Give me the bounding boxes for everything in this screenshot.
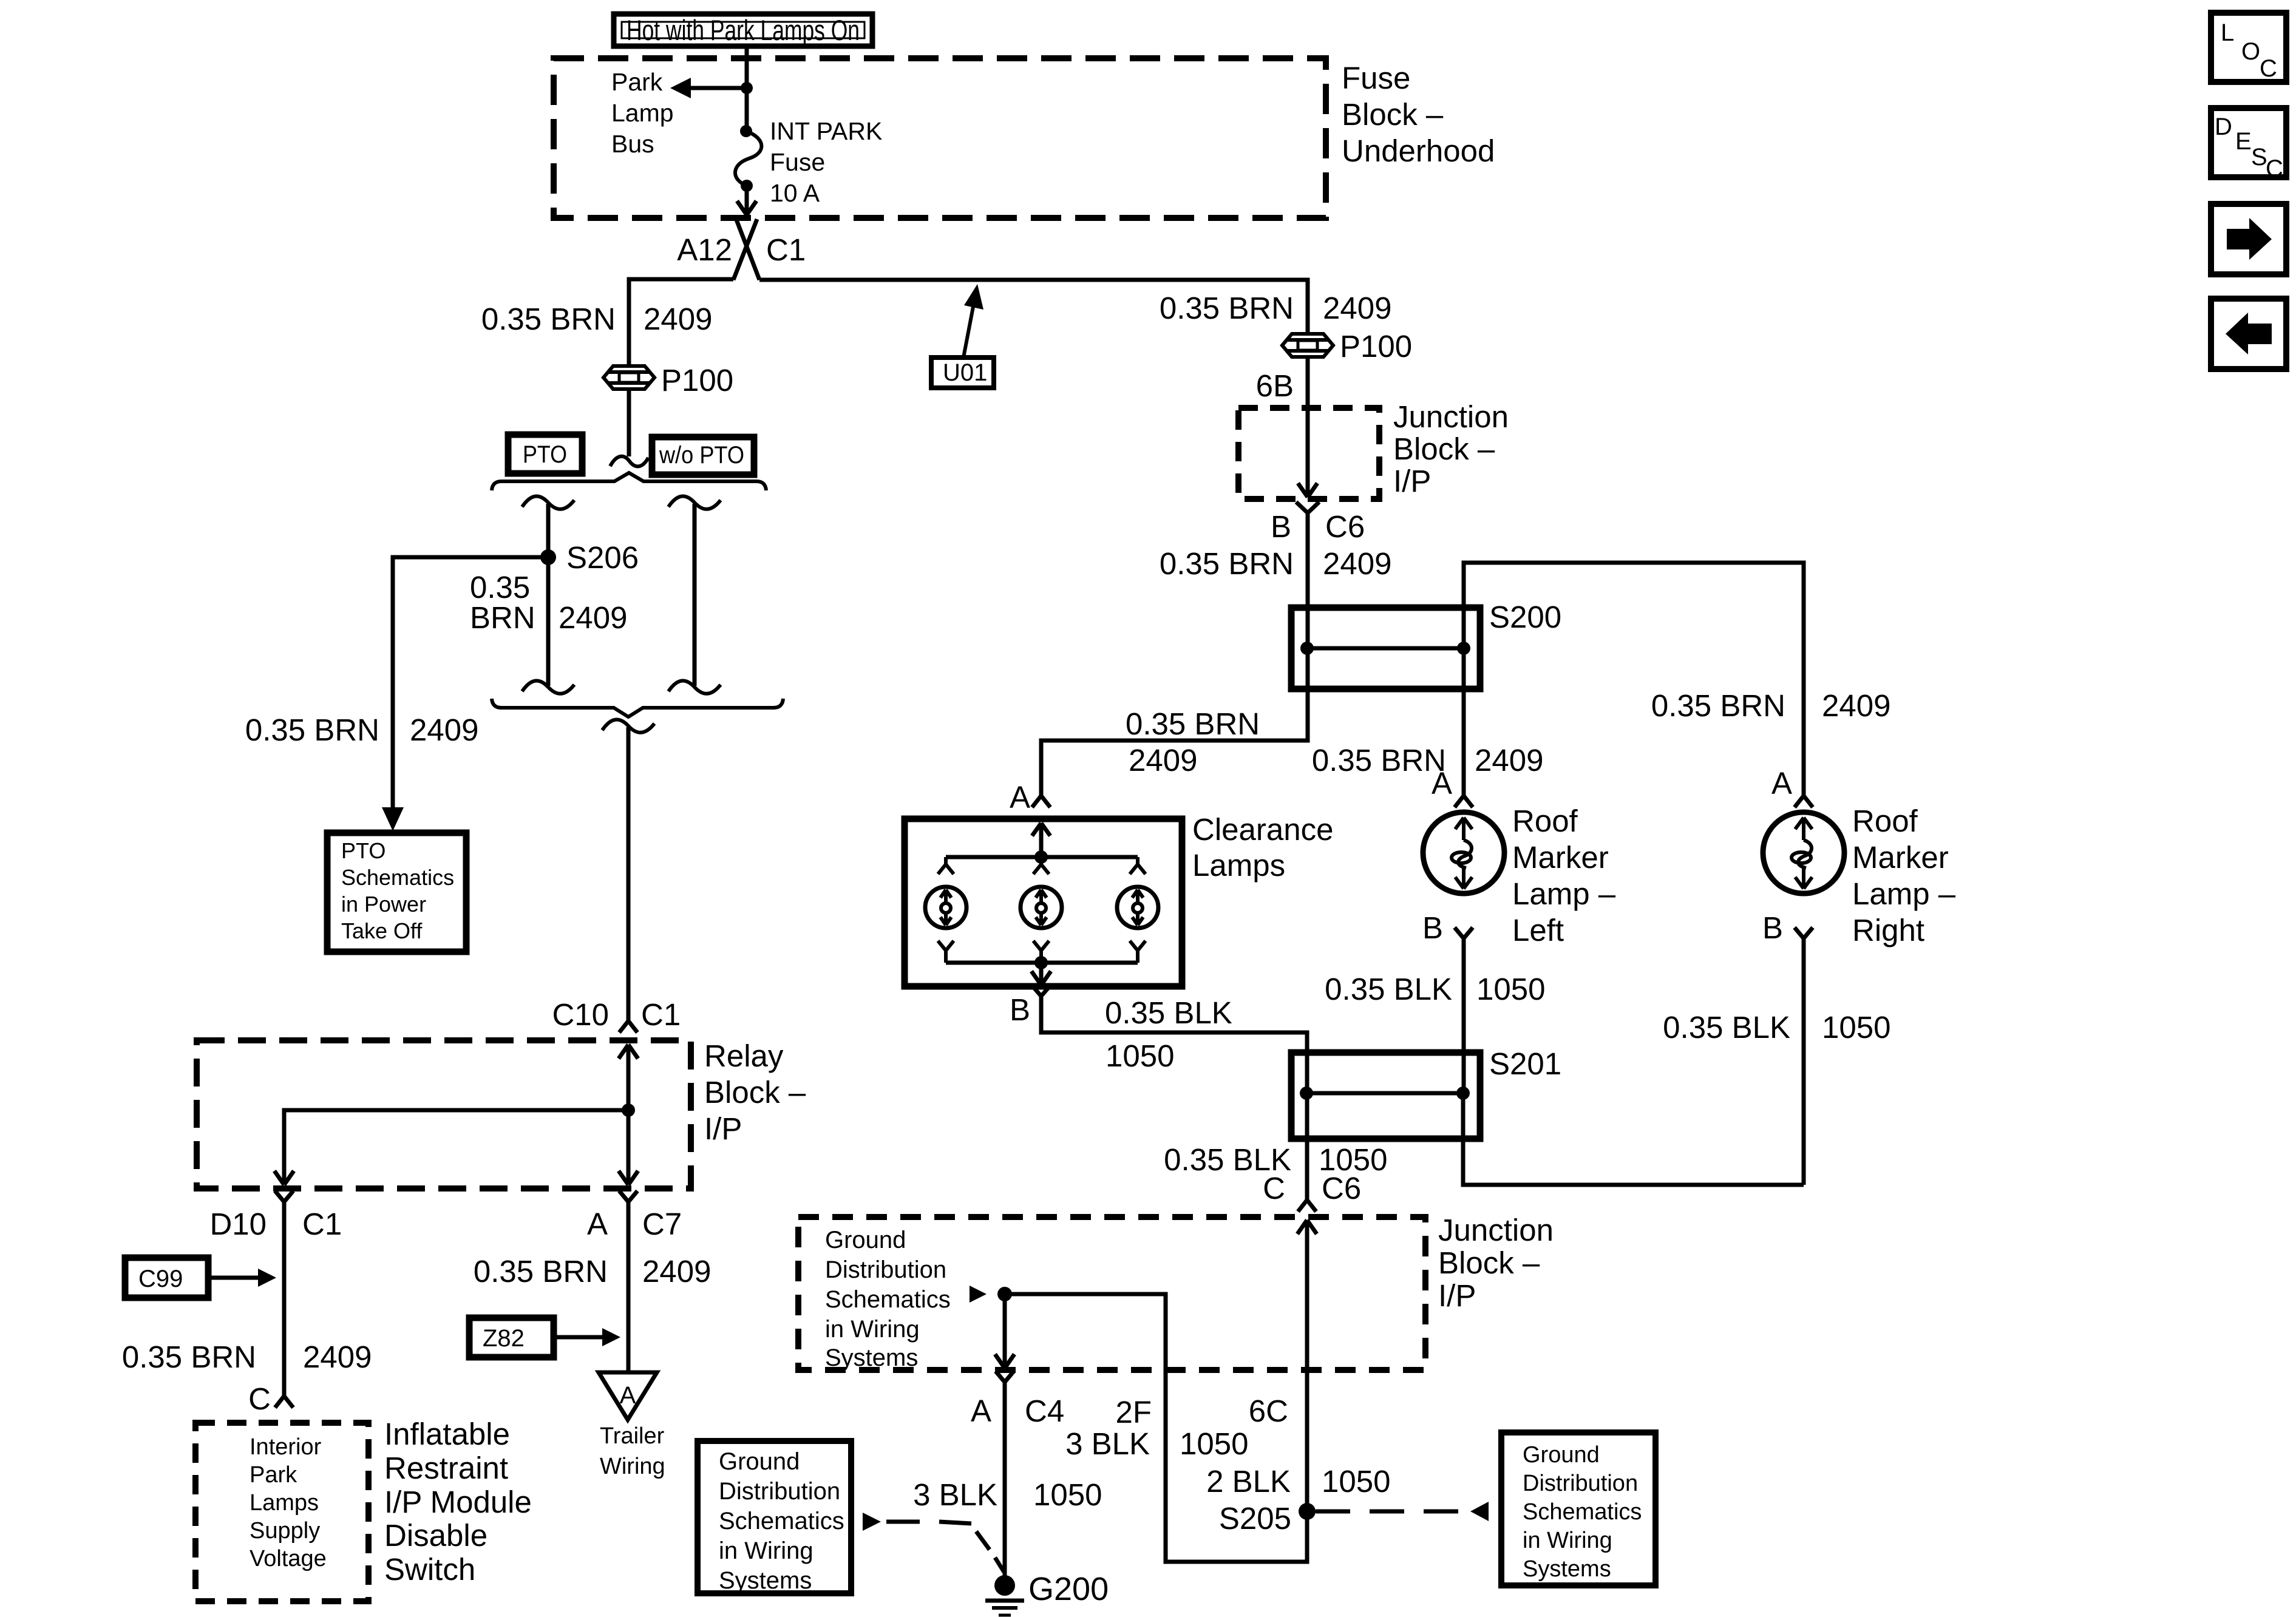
svg-text:A: A [620, 1382, 636, 1409]
svg-text:S206: S206 [566, 540, 639, 575]
svg-text:Trailer: Trailer [600, 1423, 665, 1449]
svg-text:0.35 BRN: 0.35 BRN [481, 302, 616, 336]
node clearance feed dot [1034, 850, 1048, 864]
wire S206 to PTO schematics arrow [393, 557, 548, 807]
svg-text:Schematics: Schematics [719, 1508, 844, 1534]
alternative bracket left (PTO path) [522, 497, 574, 694]
label Trailer Wiring [600, 1423, 665, 1479]
svg-text:0.35 BRN: 0.35 BRN [1126, 707, 1260, 741]
svg-text:2 BLK: 2 BLK [1206, 1464, 1291, 1499]
svg-text:C10: C10 [552, 997, 609, 1032]
wire from Hot box into fuse block [745, 46, 749, 88]
svg-text:A: A [587, 1207, 608, 1241]
clearance bulb left [925, 857, 966, 963]
svg-text:B: B [1422, 910, 1443, 945]
connector A C4 legs [996, 1371, 1014, 1390]
svg-text:D: D [2215, 114, 2232, 140]
label Fuse Block - Underhood [1342, 61, 1495, 168]
clearance bulb right [1117, 857, 1158, 963]
svg-text:2409: 2409 [1323, 546, 1391, 581]
svg-text:Switch: Switch [384, 1552, 475, 1587]
svg-text:B: B [1010, 992, 1030, 1027]
svg-text:Supply: Supply [250, 1518, 320, 1544]
wire B C6 to S200 [1306, 522, 1310, 648]
svg-text:Fuse: Fuse [1342, 61, 1410, 95]
svg-text:2409: 2409 [642, 1254, 711, 1289]
svg-text:C: C [2260, 55, 2277, 82]
svg-text:3 BLK: 3 BLK [1065, 1426, 1150, 1461]
svg-text:Park: Park [250, 1462, 297, 1488]
svg-text:B: B [1762, 910, 1783, 945]
wire A12 left leg to left branch corner [629, 279, 733, 366]
label Park Lamp Bus [611, 68, 674, 158]
svg-text:Distribution: Distribution [1523, 1471, 1638, 1496]
label Roof Marker Lamp - Right [1852, 804, 1956, 947]
svg-text:Block –: Block – [1393, 432, 1495, 466]
junction block I/P dashed box (upper) [1238, 408, 1379, 499]
svg-text:C: C [248, 1381, 271, 1416]
sidebar icon arrow left [2211, 299, 2286, 369]
splice box S201 [1291, 1053, 1480, 1139]
dashed reference wire to G200 [886, 1520, 920, 1524]
label 0.35 BRN (stacked at S206) [470, 570, 535, 635]
connector B C6 legs [1296, 502, 1319, 522]
svg-text:Wiring: Wiring [600, 1454, 665, 1479]
dashed reference wire S205 to ground distribution schematics [1316, 1510, 1469, 1514]
svg-text:A: A [1771, 766, 1792, 801]
svg-text:0.35 BRN: 0.35 BRN [474, 1254, 608, 1289]
svg-text:Junction: Junction [1438, 1213, 1554, 1247]
arrow C99 to wire [208, 1269, 276, 1287]
svg-text:Marker: Marker [1512, 840, 1609, 875]
label INT PARK Fuse 10 A [770, 117, 882, 207]
interior park lamps dashed box [195, 1423, 369, 1601]
sidebar icon arrow right [2211, 204, 2286, 274]
wire clearance top bus [946, 855, 1138, 859]
svg-text:I/P: I/P [1393, 464, 1431, 498]
wire dot to 2F drop [1005, 1294, 1307, 1562]
svg-text:Hot with Park Lamps On: Hot with Park Lamps On [627, 14, 860, 46]
connector P100 (right) [1282, 334, 1333, 357]
trailer wiring triangle A [599, 1372, 657, 1420]
splice S206 [540, 549, 556, 565]
svg-text:6C: 6C [1249, 1394, 1288, 1428]
svg-text:Park: Park [611, 68, 663, 96]
svg-text:I/P: I/P [704, 1111, 742, 1146]
wire S200 right inner down to left roof lamp [1462, 648, 1466, 796]
arrow down to D10 [274, 1171, 294, 1185]
svg-text:INT PARK: INT PARK [770, 117, 882, 145]
svg-text:2409: 2409 [644, 302, 712, 336]
wire brace to relay block connector C10 [627, 727, 631, 1021]
roof marker lamp right [1763, 796, 1844, 1185]
svg-text:C1: C1 [641, 997, 681, 1032]
svg-text:0.35: 0.35 [470, 570, 530, 605]
reference box PTO Schematics in Power Take Off [327, 833, 466, 952]
wire dot to fuse [745, 88, 749, 131]
svg-text:Ground: Ground [719, 1448, 800, 1475]
label Clearance Lamps [1192, 812, 1333, 883]
svg-text:0.35 BLK: 0.35 BLK [1105, 995, 1232, 1030]
svg-text:Bus: Bus [611, 130, 654, 158]
svg-text:P100: P100 [661, 363, 733, 398]
label Relay Block - I/P [704, 1039, 806, 1146]
svg-text:w/o PTO: w/o PTO [659, 442, 744, 469]
wire left lamp B into S201 [1462, 1051, 1466, 1093]
wire through junction block with arrow down [1298, 408, 1317, 497]
reference box Ground Distribution Schematics in Wiring Systems (right) [1501, 1432, 1656, 1585]
svg-text:Systems: Systems [1523, 1556, 1611, 1582]
connector A C7 legs [619, 1191, 637, 1210]
wire D10 down to interior park lamps [282, 1210, 287, 1396]
fuse INT PARK Fuse 10 A [735, 125, 761, 192]
ground G200 [985, 1575, 1024, 1615]
svg-text:Voltage: Voltage [250, 1546, 327, 1571]
wire S200 right branch up and over to right roof lamp [1464, 563, 1804, 796]
svg-text:0.35 BRN: 0.35 BRN [1160, 546, 1294, 581]
svg-text:Restraint: Restraint [384, 1451, 508, 1485]
label Ground Distribution Schematics in Wiring Systems (inside junction block) [825, 1227, 951, 1371]
svg-text:Systems: Systems [719, 1567, 812, 1594]
svg-text:Clearance: Clearance [1192, 812, 1333, 847]
node junction dot in fuse block [741, 82, 753, 94]
svg-text:0.35 BRN: 0.35 BRN [122, 1340, 256, 1374]
svg-text:Take Off: Take Off [341, 918, 423, 943]
svg-text:in Wiring: in Wiring [825, 1316, 920, 1343]
svg-text:C7: C7 [642, 1207, 682, 1241]
svg-text:Lamp: Lamp [611, 99, 674, 127]
arrow U01 to wire [963, 284, 983, 358]
svg-text:BRN: BRN [470, 600, 535, 635]
reference box Ground Distribution Schematics in Wiring Systems (left) [698, 1441, 851, 1594]
connector B legs (clearance) [1033, 986, 1050, 1005]
wire break symbol (tilde) [610, 456, 648, 467]
svg-text:1050: 1050 [1322, 1464, 1390, 1499]
svg-text:S205: S205 [1219, 1501, 1291, 1536]
arrow down out of clearance box [1031, 963, 1051, 985]
svg-text:Disable: Disable [384, 1518, 487, 1553]
svg-text:Lamps: Lamps [250, 1490, 319, 1516]
wire start tilde below brace [602, 720, 654, 733]
svg-text:Ground: Ground [825, 1227, 906, 1253]
svg-text:G200: G200 [1028, 1571, 1109, 1607]
connector A12 C1 crossed pair [733, 219, 759, 280]
svg-text:1050: 1050 [1106, 1039, 1174, 1073]
svg-text:Systems: Systems [825, 1344, 918, 1371]
connector A legs (clearance) [1032, 796, 1050, 807]
svg-text:A: A [1432, 766, 1452, 801]
wire P100 to break [627, 389, 631, 456]
sidebar icon DESC [2211, 108, 2286, 182]
svg-text:0.35 BLK: 0.35 BLK [1663, 1010, 1790, 1045]
alternative bracket right (w/o PTO path) [668, 497, 721, 694]
wire A12 right leg to right branch corner [759, 280, 1308, 334]
clearance bulb middle [1021, 857, 1062, 963]
reference arrow (right pointing) from left ground box [863, 1513, 881, 1531]
svg-text:Schematics: Schematics [1523, 1499, 1642, 1525]
label U01 reference [931, 358, 994, 388]
svg-text:E: E [2235, 128, 2252, 155]
label Junction Block - I/P (lower) [1438, 1213, 1554, 1313]
reference box C99 [125, 1258, 208, 1298]
svg-text:S201: S201 [1489, 1046, 1561, 1081]
svg-text:Underhood: Underhood [1342, 134, 1495, 168]
wire S200 left branch down to corner and left to clearance lamps [1041, 648, 1308, 796]
svg-text:Left: Left [1512, 913, 1564, 947]
svg-text:O: O [2241, 38, 2260, 65]
connector C10 C1 legs [619, 1021, 637, 1032]
svg-text:Distribution: Distribution [825, 1256, 946, 1283]
svg-text:Fuse: Fuse [770, 148, 825, 176]
svg-text:Marker: Marker [1852, 840, 1949, 875]
splice box S200 [1291, 608, 1480, 689]
connector P100 (left) [603, 366, 654, 389]
option brace (opens down, points up at wire) [492, 473, 766, 490]
svg-text:Distribution: Distribution [719, 1478, 840, 1505]
reference box Z82 [469, 1318, 554, 1357]
arrow Z82 to wire [554, 1328, 620, 1346]
option box w/o PTO [652, 437, 754, 475]
svg-text:Block –: Block – [1438, 1246, 1540, 1280]
svg-text:P100: P100 [1340, 329, 1412, 364]
svg-text:1050: 1050 [1180, 1426, 1248, 1461]
svg-text:D10: D10 [209, 1207, 267, 1241]
svg-text:1050: 1050 [1476, 972, 1545, 1006]
option box PTO [508, 435, 582, 473]
svg-text:0.35 BRN: 0.35 BRN [1312, 743, 1446, 778]
svg-text:2409: 2409 [1822, 688, 1890, 723]
svg-text:B: B [1271, 509, 1291, 544]
reference arrow (left pointing) at right ground box [1470, 1502, 1489, 1521]
svg-text:Schematics: Schematics [825, 1286, 951, 1313]
svg-text:2409: 2409 [559, 600, 627, 635]
svg-text:in Wiring: in Wiring [1523, 1528, 1612, 1553]
svg-text:1050: 1050 [1822, 1010, 1890, 1045]
svg-text:C6: C6 [1325, 509, 1365, 544]
power label box "Hot with Park Lamps On" [614, 14, 872, 46]
svg-text:A: A [971, 1394, 991, 1428]
svg-text:I/P Module: I/P Module [384, 1485, 532, 1519]
svg-text:0.35 BLK: 0.35 BLK [1325, 972, 1452, 1006]
svg-text:A12: A12 [677, 232, 732, 267]
alternatives closing brace (points down) [492, 699, 783, 717]
arrow up into relay block [619, 1045, 638, 1110]
svg-text:10 A: 10 A [770, 179, 820, 207]
wire clearance bottom bus [946, 961, 1138, 965]
svg-text:Interior: Interior [250, 1434, 322, 1460]
svg-text:Z82: Z82 [483, 1325, 525, 1352]
svg-text:A: A [1010, 780, 1030, 815]
svg-text:C4: C4 [1025, 1394, 1064, 1428]
connector D10 C1 legs [275, 1191, 293, 1210]
svg-text:Right: Right [1852, 913, 1924, 947]
label Junction Block - I/P (upper) [1393, 399, 1509, 498]
wire A C7 down to trailer wiring [627, 1210, 631, 1372]
wire P100 to junction block [1306, 357, 1310, 410]
label Inflatable Restraint I/P Module Disable Switch [384, 1417, 532, 1587]
wire relay block branch left [284, 1110, 628, 1184]
svg-text:6B: 6B [1256, 368, 1294, 403]
svg-text:C99: C99 [138, 1266, 183, 1292]
wire A C4 down to G200 [1003, 1390, 1007, 1585]
svg-text:2409: 2409 [1475, 743, 1543, 778]
svg-text:C6: C6 [1322, 1171, 1361, 1205]
svg-text:C1: C1 [302, 1207, 342, 1241]
arrow down to A C7 [619, 1110, 638, 1185]
roof marker lamp left [1423, 796, 1504, 1051]
svg-text:0.35 BRN: 0.35 BRN [245, 713, 379, 747]
node relay block dot [622, 1103, 635, 1117]
svg-text:Relay: Relay [704, 1039, 784, 1073]
label Interior Park Lamps Supply Voltage [250, 1434, 327, 1571]
arrow down to A C4 [995, 1294, 1014, 1368]
svg-text:Roof: Roof [1852, 804, 1918, 838]
svg-text:Junction: Junction [1393, 399, 1509, 434]
svg-text:Inflatable: Inflatable [384, 1417, 510, 1451]
svg-text:C1: C1 [766, 232, 806, 267]
svg-text:Roof: Roof [1512, 804, 1578, 838]
svg-text:2409: 2409 [1129, 743, 1197, 778]
reference arrow in junction block (ground distribution) [970, 1286, 987, 1303]
svg-text:in Power: in Power [341, 892, 426, 917]
svg-text:C: C [2266, 155, 2283, 182]
arrow to Park Lamp Bus [670, 78, 691, 98]
svg-text:2409: 2409 [1323, 291, 1391, 325]
svg-text:Block –: Block – [1342, 97, 1444, 132]
svg-text:Schematics: Schematics [341, 865, 454, 890]
svg-text:2409: 2409 [410, 713, 478, 747]
clearance lamps box [905, 819, 1182, 986]
splice S205 [1299, 1503, 1316, 1520]
svg-text:PTO: PTO [341, 838, 385, 863]
node clearance bottom dot [1034, 956, 1048, 969]
svg-text:Lamps: Lamps [1192, 848, 1285, 883]
svg-text:C: C [1263, 1171, 1285, 1205]
svg-text:in Wiring: in Wiring [719, 1537, 813, 1564]
svg-text:S: S [2251, 144, 2267, 171]
svg-text:PTO: PTO [523, 441, 567, 468]
junction block I/P dashed box (lower, ground distribution) [798, 1217, 1425, 1370]
arrow into PTO Schematics box [382, 807, 404, 831]
wire fuse to fuse block edge with arrow [745, 186, 749, 214]
svg-text:1050: 1050 [1033, 1477, 1102, 1512]
svg-text:2409: 2409 [303, 1340, 372, 1374]
svg-text:S200: S200 [1489, 600, 1561, 634]
svg-text:Block –: Block – [704, 1075, 806, 1110]
svg-text:L: L [2221, 19, 2234, 46]
svg-text:2F: 2F [1115, 1395, 1152, 1429]
relay block I/P dashed box [197, 1040, 691, 1188]
arrow up inside clearance box [1032, 823, 1050, 857]
node ground distribution dot [997, 1287, 1012, 1301]
sidebar icon LOC [2211, 13, 2286, 82]
svg-text:0.35 BRN: 0.35 BRN [1651, 688, 1785, 723]
svg-text:I/P: I/P [1438, 1278, 1476, 1313]
connector C C6 legs [1298, 1200, 1316, 1212]
connector C legs (interior park lamps) [275, 1396, 293, 1408]
svg-text:Lamp –: Lamp – [1512, 876, 1616, 911]
svg-text:Lamp –: Lamp – [1852, 876, 1956, 911]
fuse block dashed box Fuse Block - Underhood [554, 58, 1326, 218]
svg-text:U01: U01 [943, 359, 987, 386]
label Roof Marker Lamp - Left [1512, 804, 1616, 947]
svg-text:3 BLK: 3 BLK [913, 1477, 997, 1512]
arrow up into junction block from 6C wire [1297, 1220, 1317, 1511]
wire park lamp bus feed [688, 86, 747, 90]
svg-text:Ground: Ground [1523, 1442, 1600, 1468]
wire clearance B to S201 [1041, 1005, 1307, 1200]
wire right lamp B under S201 [1463, 1093, 1804, 1185]
svg-text:0.35 BRN: 0.35 BRN [1160, 291, 1294, 325]
